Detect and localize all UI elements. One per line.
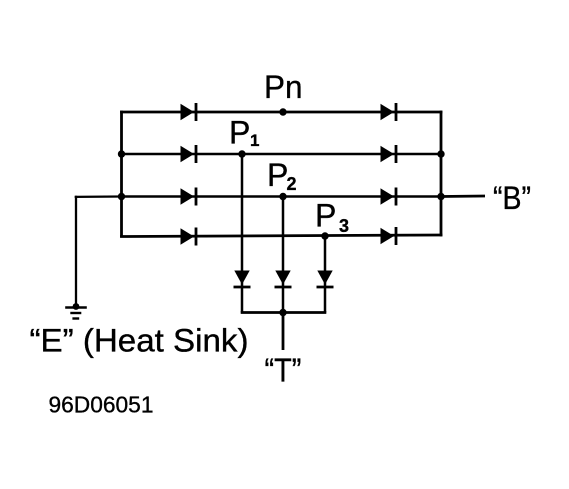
- diode trio P1 down: [234, 271, 251, 288]
- wire P2 drop vertical: [282, 197, 285, 313]
- svg-text:P: P: [229, 115, 250, 151]
- node Pn tap on rail 1: [279, 108, 286, 115]
- node P3 tap on rail 4: [321, 232, 328, 239]
- wire trio-diode joining bottom: [241, 311, 327, 314]
- wire rail 1 (Pn phase): [120, 111, 442, 114]
- diode positive rail1 right: [381, 103, 397, 121]
- svg-text:2: 2: [287, 174, 297, 194]
- node label Pn: [264, 69, 303, 105]
- svg-text:“E” (Heat Sink): “E” (Heat Sink): [30, 323, 249, 359]
- node label P3: [315, 198, 349, 236]
- node right bus / rail 2 junction: [437, 150, 444, 157]
- wire left bus vertical: [120, 111, 123, 238]
- wire rail 2 (P1 phase): [120, 153, 442, 156]
- wire rail 3 (P2 phase): [120, 195, 442, 198]
- node right bus / rail 3 junction: [437, 193, 444, 200]
- node P1 tap on rail 2: [238, 150, 245, 157]
- svg-text:96D06051: 96D06051: [49, 392, 154, 418]
- diode positive rail1 left: [181, 103, 197, 121]
- node label "T": [265, 353, 302, 390]
- diode positive rail3 left: [181, 188, 197, 206]
- svg-text:Pn: Pn: [264, 69, 303, 105]
- svg-text:1: 1: [250, 131, 259, 150]
- diode positive rail3 right: [381, 188, 397, 206]
- wire P1 drop vertical: [241, 154, 244, 313]
- wire "E" branch horizontal: [75, 195, 122, 198]
- svg-text:“T”: “T”: [265, 353, 302, 390]
- diode positive rail2 right: [381, 145, 397, 163]
- wire "E" branch vertical to ground: [75, 196, 77, 308]
- node label P1: [229, 115, 259, 151]
- node label P2: [267, 157, 297, 194]
- wire "T" stub vertical: [282, 313, 285, 351]
- node left bus / rail 3 junction: [118, 193, 125, 200]
- diode positive rail4 left: [181, 228, 197, 246]
- svg-text:“B”: “B”: [493, 180, 531, 216]
- node label "B": [493, 180, 531, 216]
- wire right bus vertical: [440, 111, 443, 237]
- diode trio P3 down: [317, 271, 334, 288]
- wire rail 4 (P3 phase): [120, 235, 442, 237]
- svg-text:P: P: [267, 157, 288, 193]
- node "T" junction: [279, 309, 286, 316]
- drawing number 96D06051: [49, 392, 154, 418]
- node left bus / rail 2 junction: [118, 150, 125, 157]
- wire "B" output lead: [441, 195, 485, 198]
- wire P3 drop vertical: [324, 236, 327, 313]
- svg-text:P: P: [315, 198, 336, 234]
- diode positive rail2 left: [181, 145, 197, 163]
- node P2 tap on rail 3: [279, 193, 286, 200]
- diode positive rail4 right: [381, 227, 397, 245]
- svg-text:3: 3: [339, 216, 349, 236]
- node label "E" (Heat Sink): [30, 323, 249, 359]
- ground (heat sink): [65, 303, 87, 318]
- diode trio P2 down: [275, 271, 292, 288]
